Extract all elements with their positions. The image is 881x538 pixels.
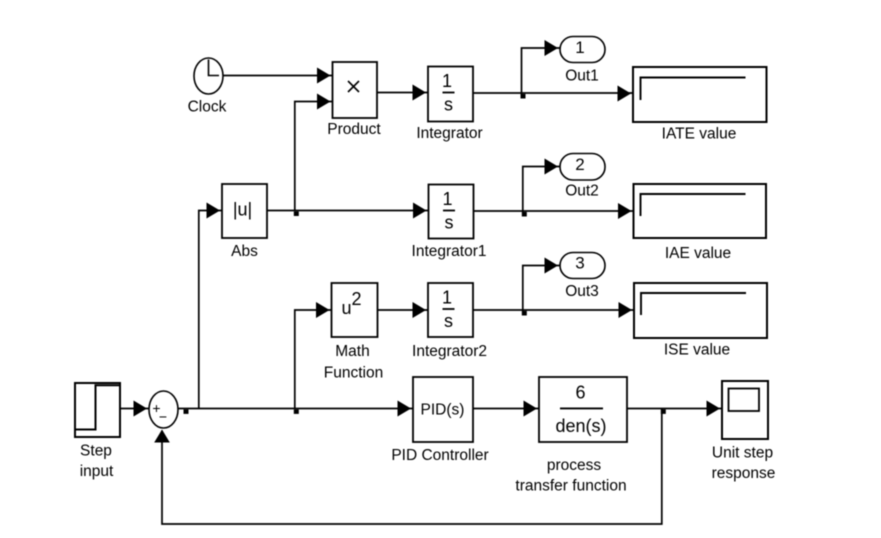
- svg-text:IAE value: IAE value: [665, 245, 731, 262]
- svg-text:Math: Math: [335, 343, 369, 360]
- junction dot at math branch: [294, 409, 299, 414]
- svg-text:s: s: [445, 213, 454, 233]
- svg-text:Out3: Out3: [565, 283, 599, 300]
- svg-text:response: response: [712, 465, 776, 482]
- svg-text:1: 1: [575, 38, 584, 57]
- sum block: [149, 391, 178, 428]
- integrator block: [428, 67, 473, 122]
- integrator1 block: [429, 185, 474, 239]
- junction dot after sum: [184, 409, 189, 414]
- outport Out1: [560, 37, 605, 63]
- svg-text:1: 1: [442, 71, 452, 91]
- math function block: [332, 283, 378, 337]
- svg-text:Integrator2: Integrator2: [412, 343, 487, 360]
- scope block Unit step response: [722, 381, 768, 439]
- product block P: [333, 62, 378, 118]
- wire Sum to PID: [178, 408, 413, 410]
- svg-text:Product: Product: [327, 121, 381, 138]
- wire feedback loop: [162, 409, 662, 525]
- wire Step to Sum: [120, 408, 149, 410]
- outport Out2: [560, 154, 605, 181]
- svg-text:Function: Function: [324, 365, 383, 382]
- svg-text:s: s: [444, 95, 453, 115]
- wire branch up to Out1: [522, 48, 561, 94]
- junction dot row3: [522, 311, 527, 316]
- outport Out3: [560, 253, 605, 279]
- integrator2 block: [428, 283, 473, 337]
- wire Integrator to IATE display: [473, 92, 633, 94]
- abs block: [222, 184, 267, 238]
- wire Clock to Product: [223, 75, 333, 77]
- svg-text:Integrator1: Integrator1: [412, 243, 487, 260]
- svg-text:process: process: [547, 457, 602, 474]
- clock source block: [194, 58, 223, 94]
- wire Integrator2 to ISE display: [473, 309, 634, 311]
- svg-text:PID Controller: PID Controller: [391, 447, 488, 464]
- svg-text:6: 6: [575, 383, 585, 403]
- wire branch up to Out2: [523, 167, 560, 213]
- wire Math Function to Integrator2: [378, 309, 429, 311]
- junction dot row2 right: [522, 212, 527, 217]
- wire branch up to Math Function: [295, 310, 332, 409]
- wire Product to Integrator: [377, 92, 428, 94]
- svg-text:Out1: Out1: [565, 68, 599, 85]
- svg-text:ISE value: ISE value: [664, 342, 730, 359]
- svg-text:1: 1: [442, 189, 452, 209]
- wire branch up to Out3: [523, 266, 560, 312]
- svg-text:Integrator: Integrator: [416, 125, 482, 142]
- ISE display block: [634, 283, 767, 338]
- svg-text:Unit step: Unit step: [712, 445, 773, 462]
- IAE display block: [634, 184, 767, 238]
- wire branch up to Product in2: [295, 102, 333, 212]
- junction dot row2 left: [294, 212, 299, 217]
- wire transfer function to Scope: [627, 408, 722, 410]
- step input block: [75, 383, 120, 437]
- svg-text:2: 2: [351, 289, 361, 309]
- svg-text:Clock: Clock: [188, 99, 227, 116]
- junction dot row1: [521, 94, 526, 99]
- svg-text:1: 1: [442, 288, 452, 308]
- wire branch up to Abs: [199, 211, 222, 409]
- svg-text:3: 3: [575, 254, 584, 273]
- svg-text:u: u: [341, 298, 351, 318]
- svg-text:PID(s): PID(s): [421, 402, 465, 419]
- svg-text:s: s: [444, 311, 453, 331]
- svg-text:IATE value: IATE value: [662, 126, 737, 143]
- process transfer function block: [539, 377, 627, 442]
- svg-text:Out2: Out2: [565, 183, 599, 200]
- svg-text:Abs: Abs: [231, 243, 258, 260]
- svg-text:Step: Step: [80, 443, 112, 460]
- wire Integrator1 to IAE display: [474, 210, 634, 212]
- svg-text:−: −: [159, 409, 167, 425]
- junction dot feedback: [661, 409, 666, 414]
- svg-text:den(s): den(s): [555, 416, 606, 436]
- wire PID to transfer function: [473, 408, 539, 410]
- svg-text:|u|: |u|: [233, 200, 252, 220]
- svg-text:input: input: [80, 463, 114, 480]
- wire Abs to Integrator1: [267, 210, 429, 212]
- PID controller block: [413, 377, 473, 442]
- IATE display block: [633, 67, 767, 122]
- svg-text:transfer function: transfer function: [515, 478, 626, 495]
- svg-text:2: 2: [575, 155, 584, 174]
